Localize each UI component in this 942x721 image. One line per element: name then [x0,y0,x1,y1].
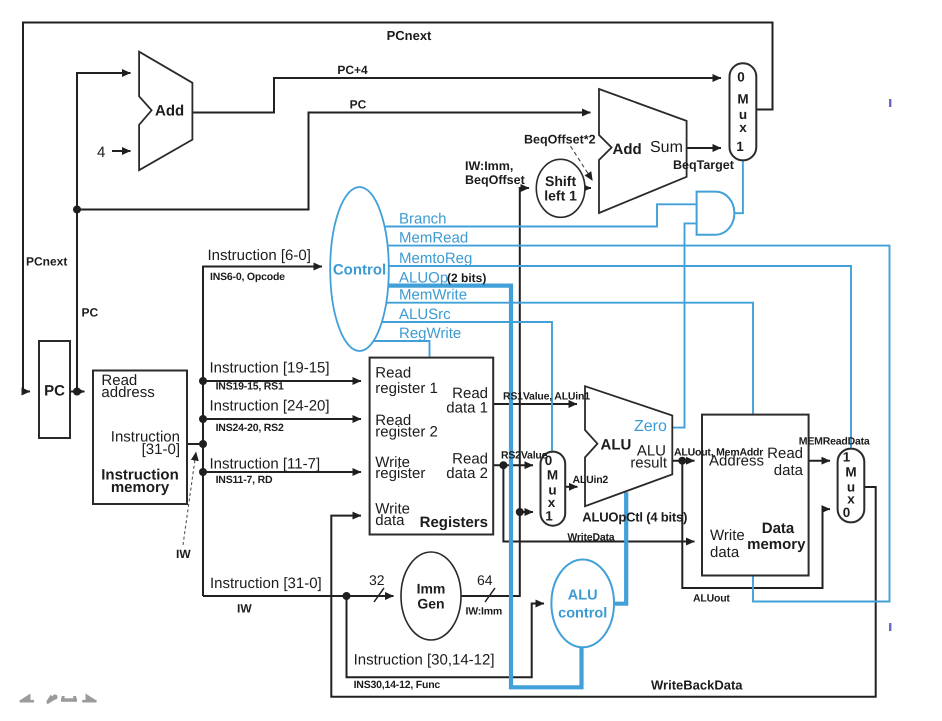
svg-text:MemRead: MemRead [399,230,468,247]
wire MemtoReg signal to result mux select [389,266,851,448]
label IW:Imm [466,606,503,618]
label WriteData [567,532,614,544]
svg-text:Read: Read [767,445,803,462]
svg-text:Instruction [31-0]: Instruction [31-0] [210,575,322,592]
svg-text:64: 64 [477,572,493,588]
label MemtoReg [399,250,472,267]
junction bus ins24-20 [199,415,207,423]
svg-text:Instruction [30,14-12]: Instruction [30,14-12] [354,652,495,669]
label INS6-0, Opcode [210,271,285,283]
dashed BeqOffset*2 annotation line [571,146,593,180]
label INS11-7, RD [216,474,273,486]
label 64 [477,572,493,588]
label PC+4 [337,63,368,77]
label ALUOpCtl (4 bits) [582,510,687,525]
svg-text:Control: Control [333,262,386,279]
svg-text:ALU: ALU [568,588,598,604]
ALU [585,386,672,506]
svg-text:data: data [710,544,740,561]
stray cursor tick upper right [889,99,891,107]
label Instruction [31-0] [210,575,322,592]
wire constant 4 into PC adder [112,150,131,152]
wire Instruction[11-7] to Write register [203,471,361,473]
svg-text:ALUout, MemAddr: ALUout, MemAddr [674,447,763,459]
wire PC output to instruction memory [70,391,85,393]
svg-text:BeqTarget: BeqTarget [673,158,735,172]
label ALUSrc [399,306,451,323]
svg-text:BeqOffset*2: BeqOffset*2 [524,133,596,147]
svg-text:result: result [630,455,668,472]
svg-text:IW:Imm,: IW:Imm, [465,159,513,173]
label ALUout, MemAddr [674,447,763,459]
svg-text:Instruction [24-20]: Instruction [24-20] [210,398,330,415]
wire Read data 1 to ALU input 1 [493,403,577,405]
svg-text:RS2Value: RS2Value [501,450,548,462]
wire immediate tap to ALUSrc mux input 1 [520,511,533,513]
label PCnext left [26,255,67,269]
svg-text:memory: memory [111,479,170,496]
svg-text:M: M [845,465,856,480]
svg-text:ALUout: ALUout [693,593,730,605]
label Instruction [30,14-12] [354,652,495,669]
wire Shift left 1 output to branch adder [585,187,592,189]
svg-text:32: 32 [369,572,385,588]
svg-text:PC: PC [350,98,367,112]
label Instruction [6-0] [208,247,311,264]
svg-text:IW: IW [176,547,191,561]
wire MemWrite signal to Data memory top [386,303,753,414]
wire ALUOpCtl (4 bits) thick from ALU control to ALU [612,492,626,603]
label BeqOffset*2 [524,133,596,147]
svg-text:M: M [547,468,558,483]
wire Read data 2 to ALUSrc mux input 0 [493,464,533,466]
label ALUOp (2 bits) [399,270,486,287]
svg-text:Write: Write [710,527,745,544]
svg-text:RS1Value, ALUin1: RS1Value, ALUin1 [503,391,590,403]
svg-text:Gen: Gen [417,596,444,612]
wire PCnext loop (mux output to PC input) [23,23,773,392]
label ALUout [693,593,730,605]
svg-text:control: control [558,606,607,622]
label RS1Value, ALUin1 [503,391,590,403]
label PC row [350,98,367,112]
wire Read data to result mux input 1 [809,460,830,462]
svg-text:ALU: ALU [601,437,632,454]
svg-text:ALUOp: ALUOp [399,270,448,287]
svg-text:Branch: Branch [399,210,447,227]
svg-text:ALUOpCtl (4 bits): ALUOpCtl (4 bits) [582,510,687,525]
label MEMReadData [799,436,870,448]
Shift left 1 oval [536,159,585,217]
svg-text:Add: Add [613,141,642,158]
toolbar icon pencil (clipped gray) [46,694,58,704]
label ALUin2 [573,474,609,486]
label Instruction [19-15] [210,359,330,376]
svg-text:Instruction [6-0]: Instruction [6-0] [208,247,311,264]
Control oval [330,187,389,351]
svg-text:MEMReadData: MEMReadData [799,436,870,448]
bus slash 32 [374,588,384,602]
label MemWrite [399,287,467,304]
svg-text:PC: PC [82,306,99,320]
junction bus ins11-7 [199,468,207,476]
label MemRead [399,230,468,247]
label INS19-15, RS1 [216,381,284,393]
junction immediate to mux [516,508,524,516]
PC adder (Add) [139,52,192,171]
label WriteBackData [651,678,743,693]
svg-text:Imm: Imm [417,581,446,597]
wire RegWrite signal to Registers [374,341,430,357]
wire ALU result to Data memory Address [672,460,694,462]
svg-text:left 1: left 1 [544,188,577,204]
label PC left [82,306,99,320]
ALU control oval [551,560,614,648]
svg-text:PC: PC [44,383,65,400]
toolbar icon shape (clipped gray) [61,696,77,702]
svg-text:0: 0 [843,505,851,520]
svg-text:ALUin2: ALUin2 [573,474,609,486]
wire Zero flag from ALU to AND gate [672,223,696,427]
wire ALUSrc mux output to ALU input 2 [565,486,577,488]
svg-text:x: x [739,120,747,135]
svg-text:(2 bits): (2 bits) [447,271,486,285]
junction ALU result / ALUout [678,457,686,465]
junction instruction 31-0 to func [343,592,351,600]
svg-text:INS19-15, RS1: INS19-15, RS1 [216,381,284,393]
svg-text:register 2: register 2 [375,424,438,441]
svg-text:register: register [375,465,425,482]
Data memory box [702,415,809,576]
svg-text:register 1: register 1 [375,380,438,397]
branch adder (Add) [599,89,687,213]
label Instruction [11-7] [210,455,321,472]
svg-text:INS30,14-12, Func: INS30,14-12, Func [354,679,441,691]
wire PC+4 from adder to branch mux input 0 [192,78,721,113]
label IW:Imm, BeqOffset [465,159,526,187]
label INS24-20, RS2 [216,422,284,434]
svg-text:PCnext: PCnext [387,28,432,43]
svg-text:data 1: data 1 [446,400,488,417]
wire WriteData from Read data 2 to Data memory [503,465,694,541]
svg-text:M: M [737,92,748,107]
junction bus instruction out [199,440,207,448]
wire Instruction[24-20] to Read register 2 [203,418,361,420]
wire Branch signal to AND gate [385,204,696,226]
svg-text:data: data [375,512,405,529]
svg-text:Instruction [19-15]: Instruction [19-15] [210,359,330,376]
svg-text:1: 1 [545,509,553,524]
svg-text:Data: Data [762,520,795,537]
stray cursor tick lower right [889,623,891,631]
label Zero [634,418,667,435]
junction PC to branch path [73,206,81,214]
Imm Gen oval [401,552,461,640]
wire Instruction[30,14-12] to ALU control [347,596,545,677]
svg-text:address: address [101,384,154,401]
svg-text:Add: Add [155,103,184,120]
label Instruction [24-20] [210,398,330,415]
svg-text:Instruction [11-7]: Instruction [11-7] [210,455,321,472]
svg-text:data 2: data 2 [446,465,488,482]
svg-text:memory: memory [747,536,806,553]
svg-text:INS6-0, Opcode: INS6-0, Opcode [210,271,285,283]
svg-text:4: 4 [97,144,105,161]
svg-text:WriteBackData: WriteBackData [651,678,743,693]
svg-text:Zero: Zero [634,418,667,435]
branch mux (PCnext select) [730,63,757,160]
wire Instruction[31-0] to Imm Gen [203,595,394,597]
junction bus ins19-15 [199,377,207,385]
label INS30,14-12, Func [354,679,441,691]
label RegWrite [399,325,461,342]
svg-text:INS24-20, RS2: INS24-20, RS2 [216,422,284,434]
svg-text:WriteData: WriteData [567,532,614,544]
svg-text:IW:Imm: IW:Imm [466,606,503,618]
svg-text:MemWrite: MemWrite [399,287,467,304]
wire WriteBackData from result mux to Registers Write data [331,487,875,697]
result mux (MemtoReg select) [838,449,865,523]
wire Instruction[19-15] to Read register 1 [203,380,361,382]
label PCnext top [387,28,432,43]
junction PC out [73,388,81,396]
junction read data 2 / write data [499,461,507,469]
svg-text:1: 1 [736,139,744,154]
svg-text:1: 1 [843,450,851,465]
svg-text:ALUSrc: ALUSrc [399,306,451,323]
ALUSrc mux [541,452,566,526]
wire AND gate output to branch mux select [734,161,743,213]
svg-text:MemtoReg: MemtoReg [399,250,472,267]
label BeqTarget [673,158,735,172]
svg-text:INS11-7, RD: INS11-7, RD [216,474,273,486]
toolbar icon redo-right (clipped gray) [82,694,96,703]
wire PC value up to PC adder input [77,73,131,392]
wire ALUOp (2 bits) thick to ALU control [388,286,581,688]
wire instruction bus vertical [202,266,204,596]
svg-text:[31-0]: [31-0] [142,441,180,458]
label constant 4 [97,144,105,161]
dashed IW annotation line (instruction word) [183,452,196,545]
wire instruction memory output to bus [187,443,203,445]
svg-text:Sum: Sum [650,139,683,156]
label Branch [399,210,447,227]
bus slash 64 [485,588,495,602]
Instruction memory box [93,371,187,505]
svg-text:PC+4: PC+4 [337,63,368,77]
label RS2Value [501,450,548,462]
PC register box [39,341,70,438]
svg-text:RegWrite: RegWrite [399,325,461,342]
AND gate (branch and zero) [697,192,735,235]
wire ALUout to result mux input 0 [682,461,830,588]
wire Imm Gen output up to Shift left 1 [461,188,529,596]
label 32 [369,572,385,588]
wire Instruction[6-0] to Control [203,266,322,268]
wire Sum from branch adder to mux input 1 [687,147,721,149]
svg-text:0: 0 [737,70,745,85]
svg-text:IW: IW [237,602,252,616]
wire MemRead signal to Data memory bottom [388,246,890,602]
label IW dashed [176,547,191,561]
svg-text:data: data [774,462,804,479]
svg-text:PCnext: PCnext [26,255,67,269]
svg-text:Registers: Registers [420,514,488,531]
toolbar icon undo-left (clipped gray) [20,694,34,703]
svg-text:BeqOffset: BeqOffset [465,173,526,187]
Registers box [370,358,494,535]
label IW under wire [237,602,252,616]
wire ALUSrc signal to mux select [382,322,552,451]
wire PC value to branch adder [77,113,591,210]
